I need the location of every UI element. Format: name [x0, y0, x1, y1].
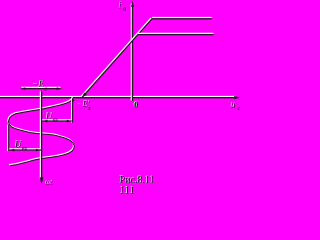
- left amplitude extension line: [8, 125, 9, 152]
- svg-text:U: U: [15, 140, 22, 150]
- flat line lower: [138, 33, 214, 34]
- vertical axis i_a with top arrowhead: [131, 1, 134, 101]
- horizontal axis u_c with right arrowhead: [0, 96, 241, 99]
- svg-text:c: c: [238, 106, 241, 112]
- caption Fig 8.11: [119, 174, 155, 186]
- label U_vx right: [45, 110, 58, 123]
- transfer characteristic diagonal with arrowhead at cutoff: [81, 18, 152, 98]
- svg-text:U: U: [46, 111, 53, 121]
- right amplitude extension line: [72, 99, 73, 123]
- left amplitude double arrow U_vx: [9, 149, 41, 152]
- time axis t downward with bottom arrowhead: [40, 91, 44, 184]
- axis label i_a: [118, 0, 126, 12]
- axis label u_c: [230, 99, 240, 112]
- svg-text:c: c: [89, 106, 92, 112]
- svg-text:c: c: [45, 87, 48, 93]
- svg-text:ωt: ωt: [46, 178, 54, 187]
- svg-text:вх: вх: [53, 118, 59, 124]
- page number 111: [119, 185, 135, 197]
- origin label 0: [133, 99, 138, 110]
- bias label -E_c: [32, 78, 48, 92]
- label U_vx left: [14, 139, 27, 152]
- input sinusoid (time axis downward): [8, 97, 75, 166]
- svg-text:u: u: [231, 100, 236, 110]
- svg-text:−E: −E: [33, 79, 45, 89]
- right amplitude double arrow U_vx: [42, 120, 72, 123]
- time axis label wt: [45, 177, 54, 187]
- svg-text:a: a: [123, 7, 126, 13]
- cutoff label -E'_c below axis: [77, 99, 92, 112]
- svg-text:вх: вх: [22, 146, 28, 152]
- saturation flat line upper: [152, 18, 212, 19]
- svg-text:111: 111: [120, 186, 136, 196]
- start point arrowhead on axis: [71, 98, 74, 101]
- svg-text:0: 0: [134, 100, 138, 110]
- bias dimension double arrow: [20, 87, 62, 90]
